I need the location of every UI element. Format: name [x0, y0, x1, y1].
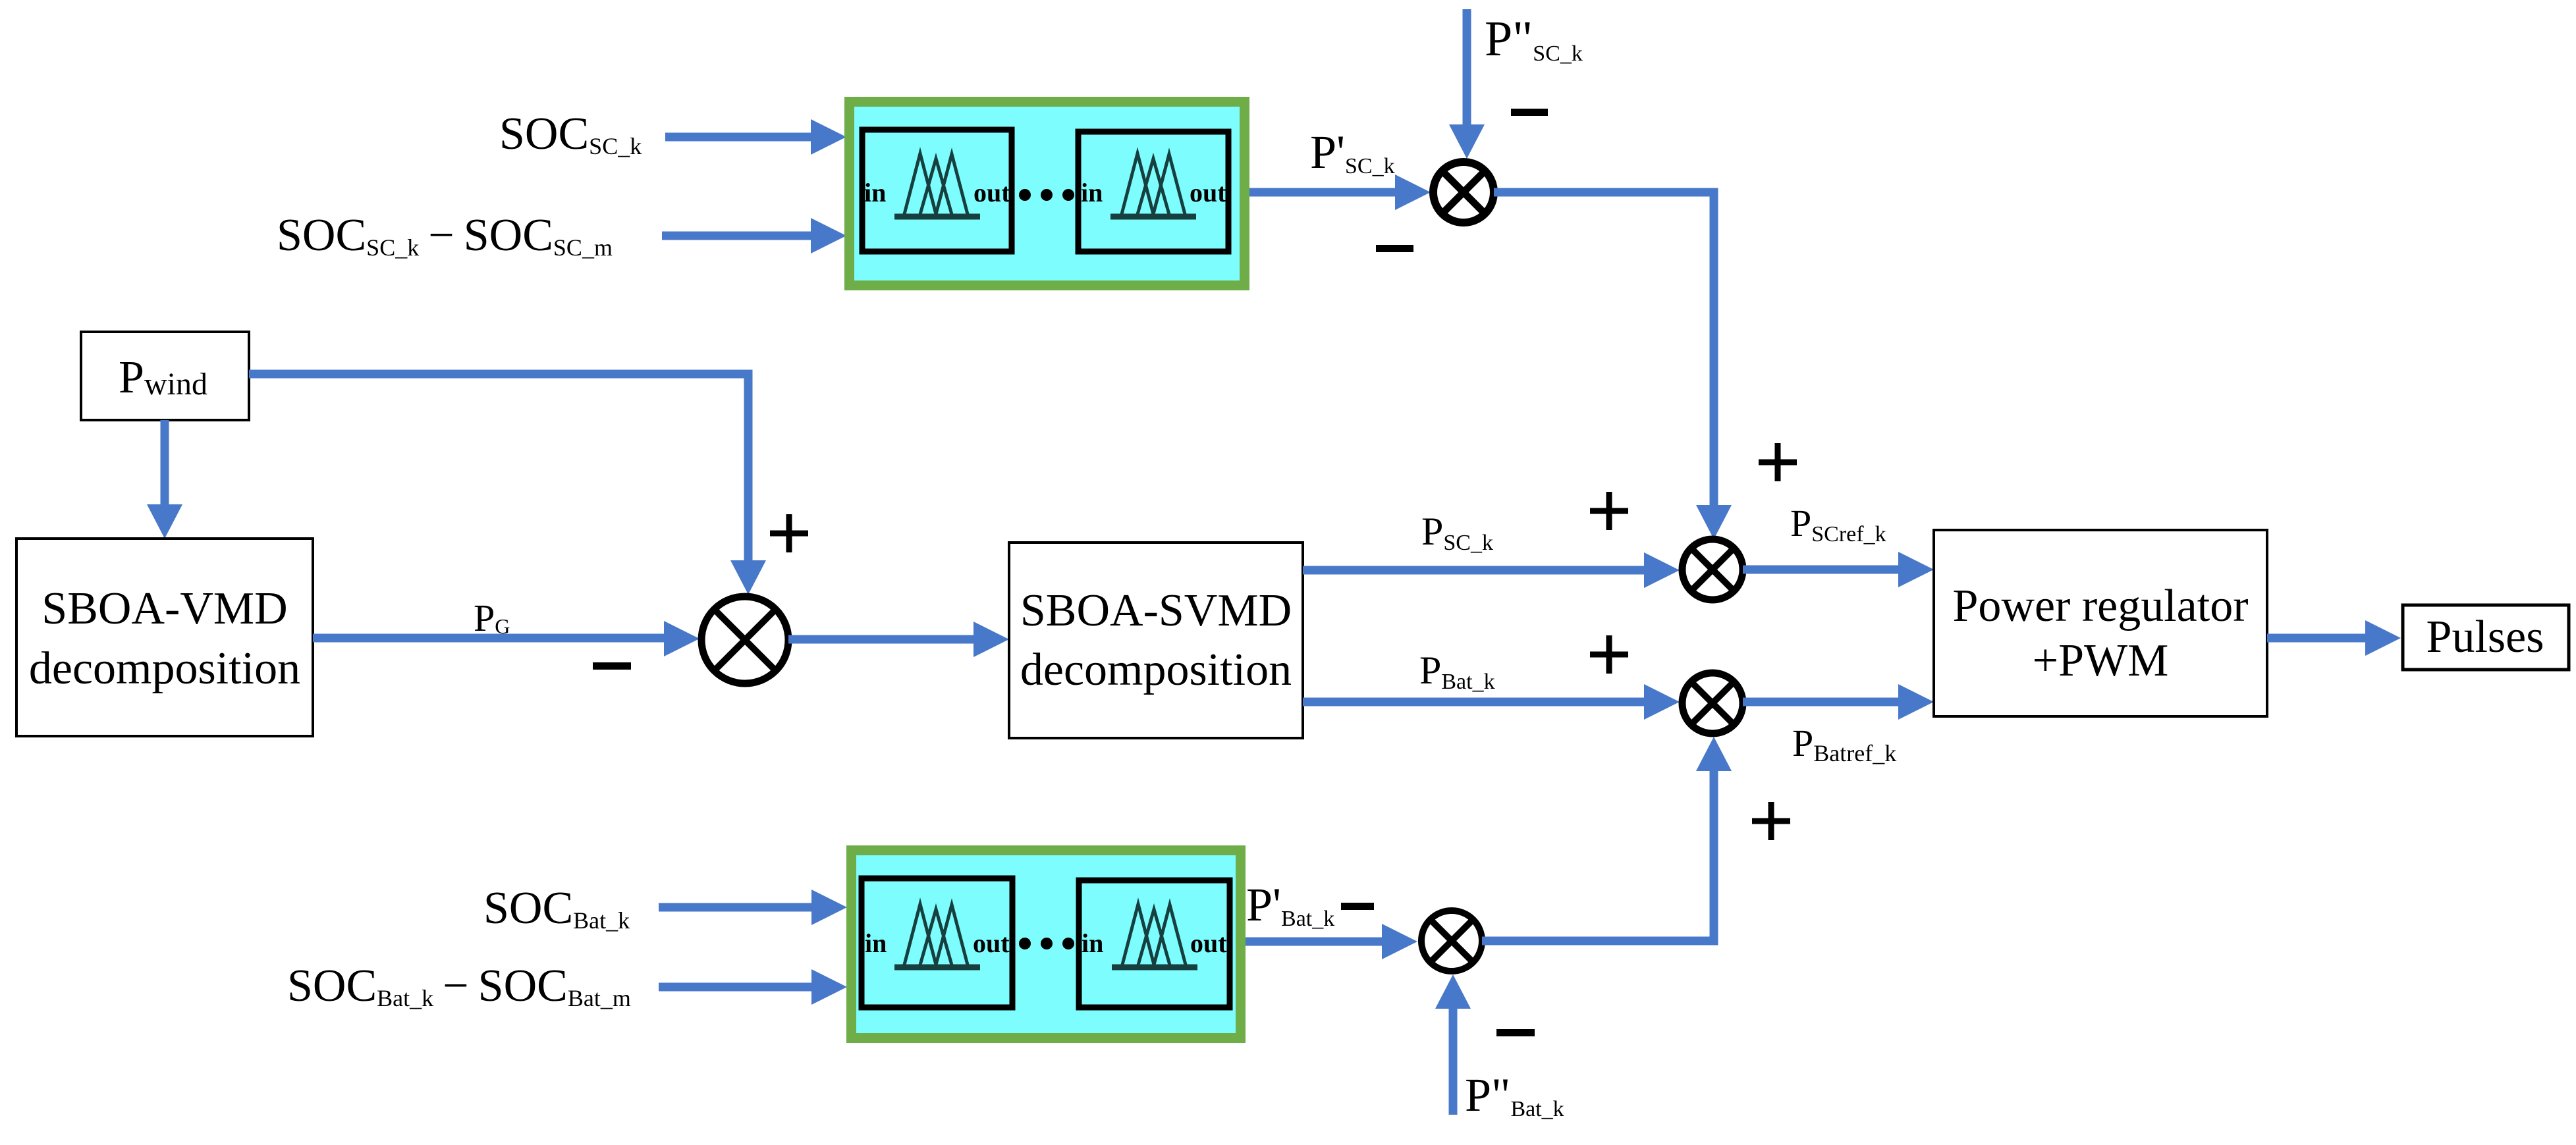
svg-text:Pulses: Pulses — [2426, 612, 2544, 662]
minus sign after P'_Bat_k — [1341, 903, 1374, 910]
block pulses — [2403, 605, 2569, 670]
plus sign below J4 — [1752, 802, 1790, 840]
svg-text:SBOA-SVMD: SBOA-SVMD — [1020, 585, 1292, 636]
svg-text:in: in — [864, 178, 886, 207]
svg-text:+PWM: +PWM — [2033, 635, 2169, 686]
svg-text:in: in — [1081, 178, 1103, 207]
plus sign above J2 — [1759, 443, 1797, 481]
svg-text:decomposition: decomposition — [1020, 645, 1292, 695]
minus sign at J3 left input — [593, 662, 631, 670]
svg-text:decomposition: decomposition — [29, 643, 300, 694]
summing junction J2 — [1682, 539, 1743, 600]
fuzzy block FLC2 (battery) — [846, 845, 1246, 1043]
block SBOA-VMD decomposition — [16, 539, 313, 736]
minus sign at J5 bottom input — [1496, 1029, 1535, 1036]
wire power regulator output to pulses — [2267, 620, 2401, 656]
wire fuzzy1 output to junction J1 — [1249, 174, 1431, 210]
fuzzy membership sketch 2b — [1112, 904, 1197, 967]
wire J1 output right and down to J2 — [1494, 192, 1732, 539]
wire J5 output right and up to J4 — [1482, 737, 1732, 941]
wire P''_SC_k vertical input — [1449, 9, 1485, 159]
minus sign at J1 left input — [1376, 245, 1413, 252]
svg-text:in: in — [865, 928, 887, 958]
svg-text:Power regulator: Power regulator — [1952, 581, 2248, 631]
fuzzy membership sketch 1b — [1110, 153, 1196, 217]
wire J3 output to SBOA-SVMD — [788, 622, 1009, 657]
summing junction J5 — [1421, 911, 1482, 971]
summing junction J4 — [1682, 673, 1743, 733]
wire SOC_SC_k - SOC_SC_m input arrow — [662, 218, 846, 253]
summing junction J1 — [1433, 162, 1494, 223]
minus sign at J1 top input — [1511, 109, 1548, 116]
fuzzy block FLC1 (supercapacitor) — [844, 97, 1249, 290]
svg-text:in: in — [1082, 928, 1103, 958]
wire SOC_Bat_k - SOC_Bat_m input arrow — [659, 969, 847, 1005]
fuzzy membership sketch 2a — [894, 904, 980, 967]
svg-text:out: out — [1190, 178, 1226, 207]
wire fuzzy2 output to junction J5 — [1246, 924, 1417, 959]
svg-text:out: out — [973, 178, 1010, 207]
block P_wind — [81, 332, 249, 420]
wire SOC_SC_k input arrow — [665, 119, 846, 155]
plus sign at J4 left input — [1590, 635, 1628, 674]
summing junction J3 — [701, 597, 788, 683]
wire P_wind down to SBOA-VMD — [147, 420, 182, 539]
wire J4 output to power regulator — [1743, 684, 1934, 720]
svg-text:SBOA-VMD: SBOA-VMD — [41, 583, 287, 634]
svg-text:out: out — [973, 928, 1010, 958]
wire SOC_Bat_k input arrow — [659, 890, 847, 925]
wire SVMD bottom output P_Bat_k to J4 — [1303, 684, 1680, 720]
wire J2 output to power regulator — [1743, 552, 1934, 587]
wire SVMD top output P_SC_k to J2 — [1303, 552, 1680, 588]
svg-text:out: out — [1190, 928, 1227, 958]
dots between fuzzy subblocks 2 — [1019, 938, 1074, 949]
block power regulator + PWM — [1934, 530, 2267, 716]
dots between fuzzy subblocks 1 — [1019, 189, 1074, 201]
wire P''_Bat_k vertical input to J5 — [1435, 974, 1471, 1115]
block SBOA-SVMD decomposition — [1009, 543, 1303, 738]
wire P_wind right and down to J3 — [249, 374, 766, 595]
plus sign at J2 left input — [1590, 492, 1628, 530]
plus sign above J3 — [770, 514, 808, 552]
wire SBOA-VMD output to J3 — [313, 621, 699, 656]
fuzzy membership sketch 1a — [894, 153, 980, 217]
